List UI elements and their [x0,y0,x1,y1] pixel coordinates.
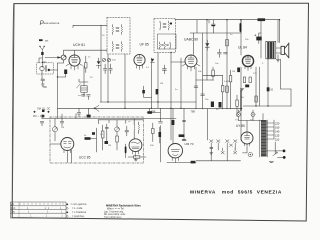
blob R22 [105,141,109,144]
oscillator coil box [81,86,87,93]
svg-text:UABC 80: UABC 80 [184,38,198,42]
electrolytic C15 [240,24,242,31]
voltage selector arrow [273,152,278,156]
trimmer CT2 [107,58,110,61]
svg-text:50: 50 [102,35,105,37]
svg-text:0,1: 0,1 [146,67,150,69]
switch bank row2 contact 1 [221,148,224,154]
svg-text:150: 150 [240,97,244,99]
IF1 primary caps [116,28,119,32]
wire vertical x181 [180,58,182,108]
dial lamp LP2 cross [252,113,255,116]
wire lamps [239,110,254,121]
blob eye ground [191,161,196,164]
svg-text:resa antenna: resa antenna [43,21,60,25]
component C17 [237,68,240,73]
resistor R4 [142,90,145,93]
wire top AM line y25 [73,25,107,27]
switch S1 contacts [39,46,40,47]
capacitor C20 [194,86,198,87]
switch bank caps [210,147,213,152]
tube UF85 pins [137,65,143,70]
svg-text:. 1 . . 11 . 1 .: . 1 . . 11 . 1 . [21,207,69,210]
svg-text:Lgo. V schemi orig.: Lgo. V schemi orig. [104,210,124,213]
band label diamonds [33,111,49,113]
svg-text:220: 220 [112,60,116,62]
choke L3 coil a [133,125,136,131]
tuning arrow line [45,57,61,59]
tube UCH81 envelope [69,55,80,66]
svg-text:I.F.: I.F. [11,202,15,206]
trimmer CT2 arrow [108,59,110,61]
svg-text:0,5M: 0,5M [224,81,229,83]
component blob fm1 [92,132,95,135]
wire uy85 down [243,148,248,153]
wire UY85 plate [246,121,248,133]
wire vertical x261 [260,20,262,58]
component fm3 [159,132,162,137]
tube UM80 pins2 [172,157,178,162]
shielded wire x241 [240,90,242,110]
capacitor C5 diode style [96,62,100,66]
tube UY85 envelope [241,132,253,144]
ground ul84 [240,89,244,91]
wire terminals [275,142,283,157]
wire r16 [128,156,146,158]
svg-text:50: 50 [271,90,274,92]
tube UCC85 envelope [61,138,74,151]
tube UL84 pins [245,66,251,71]
wire eye bottom [167,162,196,164]
ground r16 [134,158,137,161]
wire lower line y118.5 [42,118,176,120]
switch S1 blob [41,52,43,55]
capacitor C11 [151,59,155,63]
IF1 secondary coil a [112,42,115,52]
wire vertical x227 [226,20,228,109]
svg-text:UF 85: UF 85 [140,43,149,47]
wire vertical x256 [255,67,257,106]
diode D1 [205,40,209,50]
mains plug terminal B [283,156,286,159]
tube UABC80 electrodes [188,55,194,63]
svg-text:50k: 50k [198,71,202,73]
IF2 secondary coil c [169,42,172,49]
antenna coil dot [48,69,50,71]
wire cluster uabc [193,33,237,116]
switch S1 antenna [40,47,44,52]
wire fm mid [42,114,76,119]
resistor R24 [255,96,258,102]
node sw [94,108,96,110]
wire vertical x125 [124,54,126,108]
border left shadow line [12,4,14,217]
ground sw1 [210,153,213,155]
wire transformer top [239,114,264,121]
FM tuner dashed enclosure [50,117,144,163]
wire x171 lower [170,108,172,140]
loudspeaker LS [281,43,289,57]
svg-text:5n: 5n [175,89,178,91]
switch bank contact 1 [210,140,214,146]
IF2 secondary coil a [159,42,162,49]
wire magic eye top [147,108,184,162]
tube UM80 envelope [129,139,142,152]
resistor R11 [212,70,215,76]
svg-text:FM • fono: FM • fono [33,115,45,118]
svg-text:ant: ant [45,40,49,43]
wire screen line y33 [190,32,241,34]
wire r4 [144,86,152,97]
svg-text:Tar.: Tar. [11,210,15,214]
wire speaker top [277,20,279,43]
svg-text:220: 220 [275,122,280,126]
capacitor C23 [40,122,44,126]
resistor R17 dark [172,120,175,125]
svg-text:ch: ch [128,121,131,123]
blob R10 [245,85,249,88]
resistor R21 [102,131,105,138]
mains switch contact a [230,144,233,147]
electrolytic C4 [64,70,67,75]
switch on AVC bus [95,105,100,111]
tube UM80 magic eye internals [171,150,179,156]
choke L3 coil b [138,125,141,131]
IF1 secondary coil b [121,42,124,52]
variable capacitor CV1 [61,55,66,60]
svg-text:1M: 1M [232,71,235,73]
tube UCH81 electrodes [72,55,78,63]
tube UY85 pins [245,143,250,148]
wire L1 top [43,62,46,67]
wire B+ drop to output transformer [279,20,281,43]
svg-text:UCC 85: UCC 85 [79,156,91,160]
mains transformer taps [267,123,276,151]
capacitor C8 [87,95,91,100]
IF2 primary coil a [159,21,162,30]
svg-text:1M: 1M [160,83,163,85]
variable capacitor CV1 arrow [62,56,66,60]
wire vertical x207 [206,20,208,80]
capacitor C28 [77,108,80,117]
capacitor C7 [109,64,112,74]
dial lamp LP1 cross [237,113,240,116]
antenna box dashed [37,63,54,74]
wire osc [79,66,88,96]
wire fm verticals [55,128,97,163]
IF1 primary coil a [112,25,115,35]
svg-text:Wien • • • •• Tel.: Wien • • • •• Tel. [107,207,125,210]
svg-text:UL 84: UL 84 [238,46,247,50]
capacitor C12 [218,49,222,57]
IF1 secondary caps [116,45,119,49]
capacitor C25 [183,120,186,121]
wire AVC bus [58,107,242,109]
dial lamp LP1 [237,113,241,117]
ground transformer [269,162,273,163]
wire vertical x57.5 [57,63,59,108]
power switch dot [250,154,251,155]
IF2 primary caps [163,24,166,28]
svg-text:25n: 25n [205,99,209,101]
wire c5 [98,58,100,68]
tube UL84 electrodes [245,56,250,63]
capacitor C1 [41,79,45,84]
resistor R6 on B+ dark [258,18,266,21]
mains autotransformer winding [260,120,267,157]
wire r2 [85,56,87,73]
resistor R9 [249,77,251,83]
legend diamond 1 [66,203,68,205]
switch bank row2 contact 2 [234,148,237,154]
IF2 primary coil b [168,21,171,30]
blob R19 [211,102,214,108]
FM pot P1 arrow [53,127,57,131]
wire vertical x291 [290,89,292,106]
resistor R15 dark [85,137,91,140]
tube UCH81 pins [66,64,83,70]
band blob row2 [42,115,45,118]
wire pot1 [54,119,56,141]
padder trimmer [77,84,81,88]
svg-text:. . . 1 . . . 1 . . . 1: . . . 1 . . . 1 . . . 1 [19,215,64,218]
switch bank contact 4 [234,140,238,146]
wire vertical x197 [196,20,198,33]
FM pot P2 [115,127,120,132]
switch bank contact 3 [226,140,230,146]
resistor R18 blob [179,134,185,137]
svg-text:160: 160 [275,126,280,130]
svg-text:UCH 81: UCH 81 [73,43,85,47]
svg-text:Dis verso lamp. serie: Dis verso lamp. serie [104,213,126,216]
wire vertical x259.5 [259,67,261,106]
wire rail drops [98,120,134,125]
capacitor C9 [81,95,85,96]
oscillator coil marks [82,87,86,91]
resistor R7 [226,40,229,46]
capacitor C26 [182,139,186,140]
svg-text:1M: 1M [61,127,64,129]
core antenna transformer [45,66,46,72]
ground antenna [41,84,44,86]
tube UABC80 envelope [185,55,197,67]
electrolytic C21 bar [125,147,127,152]
tube UCC85 pins [64,150,71,155]
capacitor C22 [60,119,64,127]
output transformer T3 windings [266,41,276,59]
capacitor C19 [201,94,205,95]
resistor R7b [226,86,229,92]
wire antenna box [39,55,58,79]
FM rail [98,119,143,121]
svg-text:7V: 7V [235,120,238,122]
svg-text:MINERVA mod 596/5 VENEZIA: MINERVA mod 596/5 VENEZIA [190,190,282,196]
resistor R23 [116,136,119,142]
IF1 primary coil b [121,25,124,35]
resistor R12 [221,86,224,92]
resistor R13 [229,76,232,82]
capacitor C24 [159,122,163,124]
wire UABC grid left [171,61,185,63]
svg-text:10n: 10n [215,63,219,65]
wire p2 [116,120,118,150]
blob R20 [219,102,222,108]
wire vertical x101 [100,25,102,102]
tube UL84 envelope [242,55,253,66]
electrolytic C16 plus [255,34,257,36]
svg-text:20: 20 [90,77,93,79]
capacitor C10 [162,65,166,74]
ground speaker [276,55,279,62]
table column ticks row1 [19,202,63,218]
dial lamp LP2 [251,113,255,117]
wire vertical x158 [157,53,159,109]
antenna socket blob [39,39,43,41]
capacitor C14 [211,20,215,33]
svg-text:789: 789 [191,109,196,113]
svg-text:5: 5 [262,63,264,65]
mains plug terminal A [283,150,286,153]
tube UM80 pins [132,151,138,157]
switch on bus right [239,109,242,113]
wire vertical x108 [107,54,109,102]
svg-text:1n: 1n [88,57,91,59]
wire bus y106 right [243,105,291,107]
electrolytic C18 [267,87,270,91]
wire x57 extension [57,108,59,118]
IF transformer T2 dashed box [154,19,176,53]
svg-text:UM 70: UM 70 [184,142,193,146]
junction tick x209 [208,20,210,23]
capacitor C30 [125,126,129,136]
svg-text:5n: 5n [216,109,219,111]
IF2 secondary coil b [164,42,167,49]
wire B+ bus top [175,19,280,21]
wire speaker return [281,59,292,89]
svg-text:788: 788 [151,109,156,113]
blob magic eye line [148,111,153,114]
wire ground bus bottom [196,160,241,162]
wire vertical x171 [170,53,172,109]
wire choke [134,119,138,139]
wire grid line y50 [64,50,107,55]
trimmer CT1 arrow [103,59,105,61]
tube UCC85 electrodes [64,142,72,149]
IF2 secondary caps [162,45,169,46]
wire c16 [259,33,261,44]
svg-text:= com.gamma: = com.gamma [71,203,88,206]
tube UY85 electrodes [245,133,250,139]
wire vertical x196 [195,67,197,109]
svg-text:0,1: 0,1 [100,134,104,136]
svg-text:Tutti i diritti riserv.: Tutti i diritti riserv. [104,216,122,219]
switch bank contact 2 [217,140,221,146]
FM pot P1 [52,127,57,132]
wire c21 [125,144,127,158]
antenna coil L1 [40,66,44,70]
svg-text:5n: 5n [230,34,233,36]
tube UABC80 pins [182,64,200,71]
wire vertical x274 taps [273,120,275,139]
legend diamond 4 [66,215,68,217]
power switch circle [248,152,252,156]
tube UF85 electrodes [137,55,142,63]
svg-text:= mod.freq.: = mod.freq. [71,215,85,218]
legend diamond 3 [66,211,68,213]
scattered value specks [61,34,264,147]
capacitor C13 [224,53,228,54]
wire sw verticals [208,109,236,161]
resistor R14 [236,100,239,106]
svg-text:140: 140 [275,130,280,134]
legend diamond 2 [66,207,68,209]
svg-text:300: 300 [150,145,154,147]
wire c29 [88,108,90,114]
IF2 inner box [158,34,177,49]
wire vertical x268 [267,58,269,106]
wire vertical x241 [240,20,242,140]
wire vertical x151.5 [151,58,153,108]
resistor R2 [85,63,87,69]
speck mark [44,87,47,88]
svg-text:110: 110 [275,138,280,142]
capacitor C14 electrode [211,25,215,26]
svg-text:25n: 25n [245,39,249,41]
svg-text:OM OL OC: OM OL OC [37,108,51,111]
component fm2 [152,129,155,134]
wire cv1 to tube [58,50,64,63]
svg-text:125: 125 [275,134,280,138]
trimmer CT1 [102,58,105,61]
svg-text:C.F.: C.F. [11,206,16,210]
svg-text:. . 1 . . . 1 . . 1 .: . . 1 . . . 1 . . 1 . [19,211,69,214]
svg-text:170: 170 [253,73,257,75]
svg-text:= s. onda: = s. onda [71,207,83,210]
wire c15 [240,20,242,33]
tube UF85 envelope [134,54,145,65]
revision table bottom left [10,202,66,218]
wire c4 [57,74,65,77]
svg-text:2M: 2M [108,145,111,147]
svg-text:5k: 5k [84,135,87,137]
switch S1 contact b [44,46,45,47]
wire fm left parts [103,124,107,150]
capacitor C27 [105,127,108,128]
junction dots bus [57,19,280,109]
IF transformer T1 dashed box [107,18,130,55]
svg-text:= c.f.taratura: = c.f.taratura [71,211,87,214]
svg-text:UY 85: UY 85 [236,124,245,128]
resistor R5 dark [156,89,159,94]
FM pot P2 arrow [115,127,118,131]
wire fm right [153,123,160,143]
tube UM80 marks [131,142,139,149]
resistor R8 [243,77,245,83]
blob C29 [87,115,91,118]
band blob row1 [42,110,45,112]
resistor R16 [134,156,140,158]
tube UM80 magic eye envelope [168,144,182,158]
wire transformer to speaker [276,48,281,53]
capacitor C6 [103,64,106,74]
IF2 dot [170,22,172,24]
electrolytic C16 [256,37,261,41]
wire upper AVC line [100,101,196,103]
wire tube left to box [50,143,55,145]
